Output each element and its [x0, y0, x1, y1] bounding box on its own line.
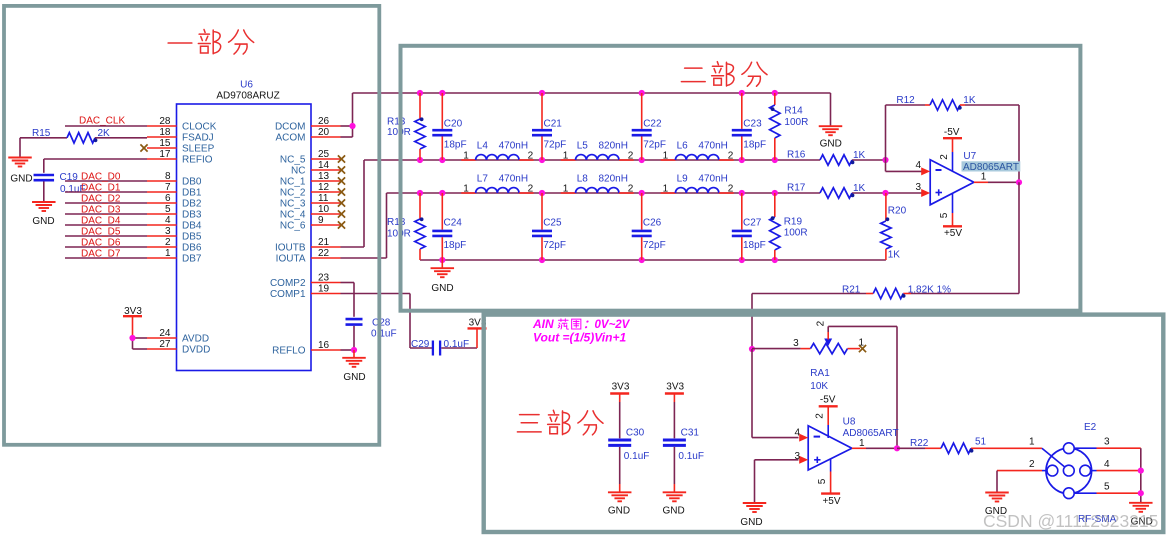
capacitor C29 0.1uF series [411, 339, 469, 356]
svg-text:R15: R15 [32, 128, 51, 139]
svg-text:1: 1 [981, 172, 987, 183]
svg-text:2K: 2K [98, 128, 111, 139]
svg-text:2: 2 [528, 150, 534, 161]
wire top AVDD/ACOM bus of filter [353, 92, 831, 94]
svg-text:3V3: 3V3 [666, 381, 684, 392]
svg-text:C20: C20 [444, 119, 463, 130]
inductor L5 820nH [561, 141, 634, 162]
svg-text:C22: C22 [643, 119, 662, 130]
svg-text:+5V: +5V [944, 228, 962, 239]
capacitor C20 18pF [432, 93, 466, 160]
net label DAC_CLK and wire to CLOCK pin 28 [65, 116, 147, 127]
svg-text:AVDD: AVDD [182, 334, 209, 345]
ground GND at U8 pin 3 [740, 503, 766, 528]
svg-text:R20: R20 [888, 206, 907, 217]
svg-text:DB1: DB1 [182, 188, 202, 199]
junction R17 R20 node [882, 190, 888, 196]
U8 output pin 1 wire [852, 438, 897, 449]
wire R12 output to U7 out node [1018, 105, 1020, 182]
wire inverting input to U7 pin 4 [886, 160, 923, 171]
svg-text:DB3: DB3 [182, 210, 202, 221]
svg-text:REFLO: REFLO [272, 346, 306, 357]
annotation Vout formula magenta text [533, 331, 626, 345]
svg-text:3: 3 [793, 338, 799, 349]
svg-text:RA1: RA1 [810, 368, 830, 379]
svg-text:R22: R22 [910, 438, 929, 449]
svg-text:COMP2: COMP2 [270, 278, 306, 289]
svg-text:4: 4 [794, 428, 800, 439]
svg-text:U8: U8 [843, 416, 856, 427]
wire E2 pin 5 [1074, 492, 1141, 494]
resistor R14 100R [770, 93, 809, 160]
svg-text:DB6: DB6 [182, 243, 202, 254]
svg-text:IOUTA: IOUTA [276, 254, 306, 265]
net labels DAC_D0-DAC_D7 and wires to DB pins [65, 172, 147, 260]
svg-text:NC_4: NC_4 [280, 210, 306, 221]
inductor L7 470nH [461, 174, 533, 195]
svg-text:1: 1 [563, 150, 569, 161]
svg-text:L5: L5 [577, 141, 589, 152]
svg-text:DAC_D7: DAC_D7 [81, 249, 121, 260]
wire REFIO to C19 [44, 159, 147, 173]
svg-text:R17: R17 [787, 183, 806, 194]
svg-text:18: 18 [159, 127, 171, 138]
svg-text:0.1uF: 0.1uF [624, 451, 650, 462]
svg-text:：0V~2V: ：0V~2V [583, 319, 631, 331]
svg-text:18pF: 18pF [743, 140, 766, 151]
junction E2 pin 4 node [1138, 468, 1144, 474]
svg-text:C31: C31 [681, 428, 700, 439]
svg-text:E2: E2 [1084, 422, 1097, 433]
svg-text:GND: GND [10, 173, 32, 184]
svg-text:14: 14 [318, 160, 330, 171]
junction at DCOM [349, 123, 355, 129]
power +5V at U8 pin 5 [817, 459, 841, 507]
svg-text:26: 26 [318, 116, 330, 127]
title text 三部分 (part three) [517, 410, 603, 435]
svg-text:2: 2 [815, 413, 826, 419]
junction at REFLO C28 GND [351, 347, 357, 353]
svg-text:+5V: +5V [822, 496, 840, 507]
ground GND below C28 [342, 350, 366, 383]
U6 left pins with pin numbers and names [147, 116, 217, 356]
svg-text:1K: 1K [853, 183, 866, 194]
wire E2 pin 2 to ground [997, 471, 1047, 493]
wire filter row 2 line [387, 192, 923, 194]
svg-text:5: 5 [165, 204, 171, 215]
svg-text:16: 16 [318, 340, 330, 351]
svg-text:2: 2 [728, 183, 734, 194]
svg-text:CLOCK: CLOCK [182, 122, 217, 133]
capacitor C24 18pF [432, 193, 466, 260]
power -5V at U8 pin 2 [815, 395, 838, 438]
svg-text:2: 2 [728, 150, 734, 161]
frame border of part two [401, 46, 1081, 311]
svg-text:18pF: 18pF [444, 140, 467, 151]
wire 3V3 to AVDD and DVDD pins [133, 338, 148, 349]
svg-text:DVDD: DVDD [182, 345, 210, 356]
svg-text:11: 11 [318, 193, 329, 204]
connector E2 RF-SMA [1029, 422, 1117, 525]
svg-text:3: 3 [165, 226, 171, 237]
svg-text:C28: C28 [372, 318, 391, 329]
svg-text:C24: C24 [444, 217, 463, 228]
svg-text:2: 2 [528, 183, 534, 194]
junction R16 feedback node [882, 157, 888, 163]
svg-text:R19: R19 [784, 217, 803, 228]
svg-text:4: 4 [1104, 459, 1110, 470]
svg-text:DAC_D0: DAC_D0 [81, 172, 121, 183]
svg-text:1K: 1K [853, 150, 866, 161]
wire C29 to 3V3 [441, 347, 477, 349]
svg-text:DAC_D1: DAC_D1 [81, 183, 121, 194]
svg-text:GND: GND [32, 216, 54, 227]
frame border of part one [4, 6, 379, 445]
svg-text:2: 2 [165, 237, 171, 248]
svg-text:15: 15 [159, 138, 171, 149]
power -5V at U7 pin 2 [939, 127, 962, 171]
svg-text:C30: C30 [626, 428, 645, 439]
svg-text:1: 1 [165, 248, 171, 259]
svg-text:18pF: 18pF [444, 240, 467, 251]
ground GND on top bus right [819, 93, 843, 150]
svg-text:1: 1 [463, 183, 469, 194]
svg-text:COMP1: COMP1 [270, 289, 306, 300]
svg-text:72pF: 72pF [643, 140, 666, 151]
resistor R22 51 [897, 436, 987, 453]
svg-text:100R: 100R [784, 228, 808, 239]
resistor R17 1K [787, 183, 866, 199]
svg-text:0.1uF: 0.1uF [678, 451, 704, 462]
svg-text:IOUTB: IOUTB [275, 243, 306, 254]
inductor L9 470nH [661, 174, 734, 195]
svg-text:2: 2 [628, 150, 634, 161]
svg-text:GND: GND [608, 506, 630, 517]
resistor R15 2K on FSADJ [20, 128, 147, 143]
svg-text:AIN: AIN [532, 317, 554, 331]
svg-text:72pF: 72pF [544, 140, 567, 151]
svg-text:GND: GND [662, 506, 684, 517]
power 3V3 at C30 [610, 381, 630, 438]
svg-text:SLEEP: SLEEP [182, 144, 215, 155]
svg-text:3V3: 3V3 [124, 306, 142, 317]
svg-text:AD8065ART: AD8065ART [963, 162, 1019, 173]
capacitor C25 72pF [532, 193, 566, 260]
svg-text:L7: L7 [477, 174, 489, 185]
svg-text:DB2: DB2 [182, 199, 202, 210]
capacitor C31 0.1uF [663, 428, 704, 463]
svg-text:U7: U7 [963, 151, 976, 162]
frame border of part three [484, 315, 1164, 532]
svg-text:AD9708ARUZ: AD9708ARUZ [216, 91, 279, 102]
svg-text:1K: 1K [963, 95, 976, 106]
svg-text:5: 5 [939, 212, 950, 218]
op-amp U8 AD8065ART [794, 416, 898, 470]
wire bottom ground bus of filter [420, 259, 886, 261]
svg-text:2: 2 [1029, 459, 1035, 470]
svg-text:4: 4 [915, 160, 921, 171]
title text 二部分 (part two) [681, 62, 767, 87]
svg-text:NC_5: NC_5 [280, 155, 306, 166]
wire R21 down to part3 node [751, 294, 753, 350]
svg-text:DAC_D5: DAC_D5 [81, 227, 121, 238]
wire RA1 wiper to U8 output [828, 326, 897, 448]
wire IOUTA to filter row 2 [341, 193, 387, 258]
svg-text:DAC_D3: DAC_D3 [81, 205, 121, 216]
svg-text:1K: 1K [888, 250, 901, 261]
svg-text:R12: R12 [896, 95, 915, 106]
svg-text:R16: R16 [787, 150, 806, 161]
svg-text:R21: R21 [842, 284, 861, 295]
junction RA1 node [749, 346, 755, 352]
junction U7 output node [1016, 179, 1022, 185]
svg-text:470nH: 470nH [499, 141, 528, 152]
op-amp U6 AD9708ARUZ DAC body [177, 80, 312, 371]
junctions on top bus [417, 90, 778, 96]
svg-text:L6: L6 [677, 141, 689, 152]
svg-text:21: 21 [318, 237, 330, 248]
ground GND below C30 [608, 447, 632, 517]
svg-text:5: 5 [1104, 482, 1110, 493]
svg-text:DB4: DB4 [182, 221, 202, 232]
svg-text:100R: 100R [784, 117, 808, 128]
svg-text:-5V: -5V [820, 395, 836, 406]
wire E2 shield pins to ground [1140, 448, 1142, 503]
U7 output pin 1 wire [974, 172, 1019, 183]
junctions on row 1 line [417, 157, 778, 163]
svg-text:3: 3 [915, 182, 921, 193]
svg-text:DAC_CLK: DAC_CLK [79, 116, 125, 127]
inductor L6 470nH [661, 141, 734, 162]
svg-text:FSADJ: FSADJ [182, 133, 214, 144]
svg-text:1: 1 [463, 150, 469, 161]
ground GND below C31 [662, 447, 686, 517]
svg-text:2: 2 [816, 320, 827, 326]
capacitor C30 0.1uF [608, 428, 649, 463]
svg-text:REFIO: REFIO [182, 155, 213, 166]
resistor R13 100R [387, 93, 425, 160]
svg-text:ACOM: ACOM [276, 133, 306, 144]
resistor R12 1K feedback [886, 95, 1020, 160]
svg-text:0.1uF: 0.1uF [371, 329, 397, 340]
svg-text:13: 13 [318, 171, 330, 182]
svg-text:24: 24 [159, 328, 171, 339]
svg-text:6: 6 [165, 193, 171, 204]
inductor L8 820nH [561, 174, 634, 195]
svg-text:820nH: 820nH [599, 174, 628, 185]
svg-text:AD8065ART: AD8065ART [843, 428, 899, 439]
svg-text:DB7: DB7 [182, 254, 202, 265]
junction U8 output node [894, 445, 900, 451]
svg-text:1: 1 [859, 438, 865, 449]
svg-text:C25: C25 [543, 217, 562, 228]
svg-text:DCOM: DCOM [275, 122, 306, 133]
svg-text:470nH: 470nH [698, 174, 727, 185]
svg-text:Vout =(1/5)Vin+1: Vout =(1/5)Vin+1 [533, 331, 626, 345]
svg-text:L8: L8 [577, 174, 589, 185]
svg-text:L4: L4 [477, 141, 489, 152]
ground GND at R15 left [8, 138, 32, 185]
svg-text:2: 2 [628, 183, 634, 194]
svg-text:DAC_D4: DAC_D4 [81, 216, 121, 227]
capacitor C19 0.1uF on REFIO [34, 172, 86, 195]
svg-text:4: 4 [165, 215, 171, 226]
svg-text:820nH: 820nH [599, 141, 628, 152]
ground GND at E2 pin 2 [985, 493, 1009, 517]
svg-text:-5V: -5V [944, 127, 960, 138]
svg-text:2: 2 [939, 154, 950, 160]
ground GND at E2 shield [1129, 503, 1153, 528]
svg-text:R13: R13 [387, 117, 406, 128]
svg-text:72pF: 72pF [543, 240, 566, 251]
svg-text:1: 1 [563, 183, 569, 194]
svg-text:19: 19 [318, 284, 330, 295]
svg-text:L9: L9 [677, 174, 689, 185]
svg-text:GND: GND [343, 372, 365, 383]
wire RA1 node down to U8 pin 4 [752, 349, 799, 438]
potentiometer RA1 10K [752, 320, 865, 392]
svg-text:U6: U6 [240, 80, 253, 91]
svg-text:R18: R18 [387, 217, 406, 228]
svg-text:1.82K 1%: 1.82K 1% [908, 284, 951, 295]
wire C28 to REFLO pin 16 [341, 326, 355, 350]
svg-text:5: 5 [817, 478, 828, 484]
power 3V3 at C29 [468, 317, 487, 348]
svg-text:CSDN @11112323215: CSDN @11112323215 [983, 511, 1158, 531]
watermark CSDN [983, 511, 1158, 531]
U6 right pins with pin numbers and names [270, 116, 341, 357]
svg-text:20: 20 [318, 127, 330, 138]
resistor R19 100R [770, 193, 808, 260]
svg-text:NC: NC [291, 166, 305, 177]
no-connect X on SLEEP pin 15 [140, 144, 147, 151]
no-connect X at RA1 pin 1 [859, 345, 866, 352]
op-amp U7 AD8065ART [915, 151, 1020, 205]
inductor L4 470nH [461, 141, 533, 162]
wire IOUTB to filter row 1 [341, 160, 365, 247]
capacitor C28 0.1uF [346, 318, 397, 340]
wire E2 pin 3 [1074, 447, 1141, 449]
svg-text:NC_1: NC_1 [280, 177, 306, 188]
svg-text:3V3: 3V3 [612, 381, 630, 392]
svg-text:470nH: 470nH [499, 174, 528, 185]
title text 一部分 (part one) [168, 29, 254, 54]
svg-text:C27: C27 [743, 217, 762, 228]
svg-text:1: 1 [663, 150, 669, 161]
resistor R20 1K [881, 193, 907, 261]
capacitor C23 18pF [732, 93, 766, 160]
annotation AIN range magenta text [532, 317, 631, 331]
ground GND below filter bottom bus [431, 260, 455, 294]
wire U7 output down to R21 [1018, 182, 1020, 293]
svg-text:7: 7 [165, 182, 171, 193]
svg-text:72pF: 72pF [643, 240, 666, 251]
no-connect X marks on U6 NC pins [338, 155, 345, 228]
svg-text:18pF: 18pF [743, 240, 766, 251]
svg-text:470nH: 470nH [698, 141, 727, 152]
capacitor C21 72pF [532, 93, 566, 160]
svg-text:DAC_D2: DAC_D2 [81, 194, 121, 205]
svg-text:51: 51 [975, 436, 987, 447]
svg-text:25: 25 [318, 149, 330, 160]
resistor R16 1K [787, 150, 866, 166]
wire COMP1 pin 19 to C29 [341, 294, 433, 349]
svg-text:C26: C26 [643, 217, 662, 228]
svg-text:DB5: DB5 [182, 232, 202, 243]
junctions on row 2 line [417, 190, 778, 196]
power 3V3 for AVDD/DVDD [123, 306, 142, 338]
svg-text:NC_6: NC_6 [280, 221, 306, 232]
wire E2 pin 4 [1091, 470, 1141, 472]
svg-text:9: 9 [318, 215, 324, 226]
svg-text:22: 22 [318, 248, 330, 259]
svg-text:GND: GND [740, 517, 762, 528]
svg-text:17: 17 [159, 149, 171, 160]
power 3V3 at C31 [665, 381, 685, 438]
svg-text:10: 10 [318, 204, 330, 215]
junctions on bottom bus [439, 257, 778, 263]
svg-text:1: 1 [1029, 437, 1035, 448]
capacitor C27 18pF [732, 193, 766, 260]
svg-text:DAC_D6: DAC_D6 [81, 238, 121, 249]
svg-text:GND: GND [820, 139, 842, 150]
svg-text:23: 23 [318, 273, 330, 284]
junction E2 pin 5 node [1138, 490, 1144, 496]
svg-text:1: 1 [663, 183, 669, 194]
svg-text:12: 12 [318, 182, 330, 193]
svg-text:C21: C21 [544, 119, 563, 130]
svg-text:NC_2: NC_2 [280, 188, 306, 199]
svg-text:C29: C29 [411, 339, 430, 350]
wire U8 pin 3 to ground [755, 460, 799, 503]
resistor R21 1.82K 1% [752, 284, 1019, 298]
wire R22 to E2 pin 1 [986, 447, 1042, 449]
wire DCOM ACOM to part2 bus [341, 93, 353, 137]
ground GND below C19 [32, 181, 56, 227]
svg-text:3: 3 [1104, 437, 1110, 448]
capacitor C22 72pF [632, 93, 666, 160]
svg-text:DB0: DB0 [182, 177, 202, 188]
svg-text:27: 27 [159, 339, 171, 350]
resistor R18 100R [387, 193, 425, 260]
svg-text:R14: R14 [784, 106, 803, 117]
svg-text:C23: C23 [743, 119, 762, 130]
svg-text:10K: 10K [810, 381, 828, 392]
junction at 3V3 AVDD [129, 335, 135, 341]
svg-text:NC_3: NC_3 [280, 199, 306, 210]
svg-text:3: 3 [794, 451, 800, 462]
power +5V at U7 pin 5 [939, 193, 962, 239]
svg-text:GND: GND [431, 283, 453, 294]
wire COMP2 pin 23 to C28 [341, 283, 355, 317]
wire filter row 1 line [364, 159, 886, 161]
capacitor C26 72pF [632, 193, 666, 260]
svg-text:8: 8 [165, 171, 171, 182]
svg-text:28: 28 [159, 116, 171, 127]
